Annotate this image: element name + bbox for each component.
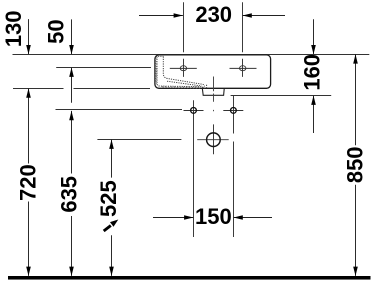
svg-text:850: 850 [343, 146, 368, 183]
svg-text:50: 50 [44, 19, 69, 43]
svg-text:525: 525 [96, 180, 121, 217]
svg-text:635: 635 [57, 176, 82, 213]
svg-text:160: 160 [299, 54, 324, 91]
svg-text:150: 150 [195, 204, 232, 229]
svg-text:230: 230 [195, 2, 232, 27]
svg-text:130: 130 [1, 10, 26, 47]
svg-text:720: 720 [16, 164, 41, 201]
